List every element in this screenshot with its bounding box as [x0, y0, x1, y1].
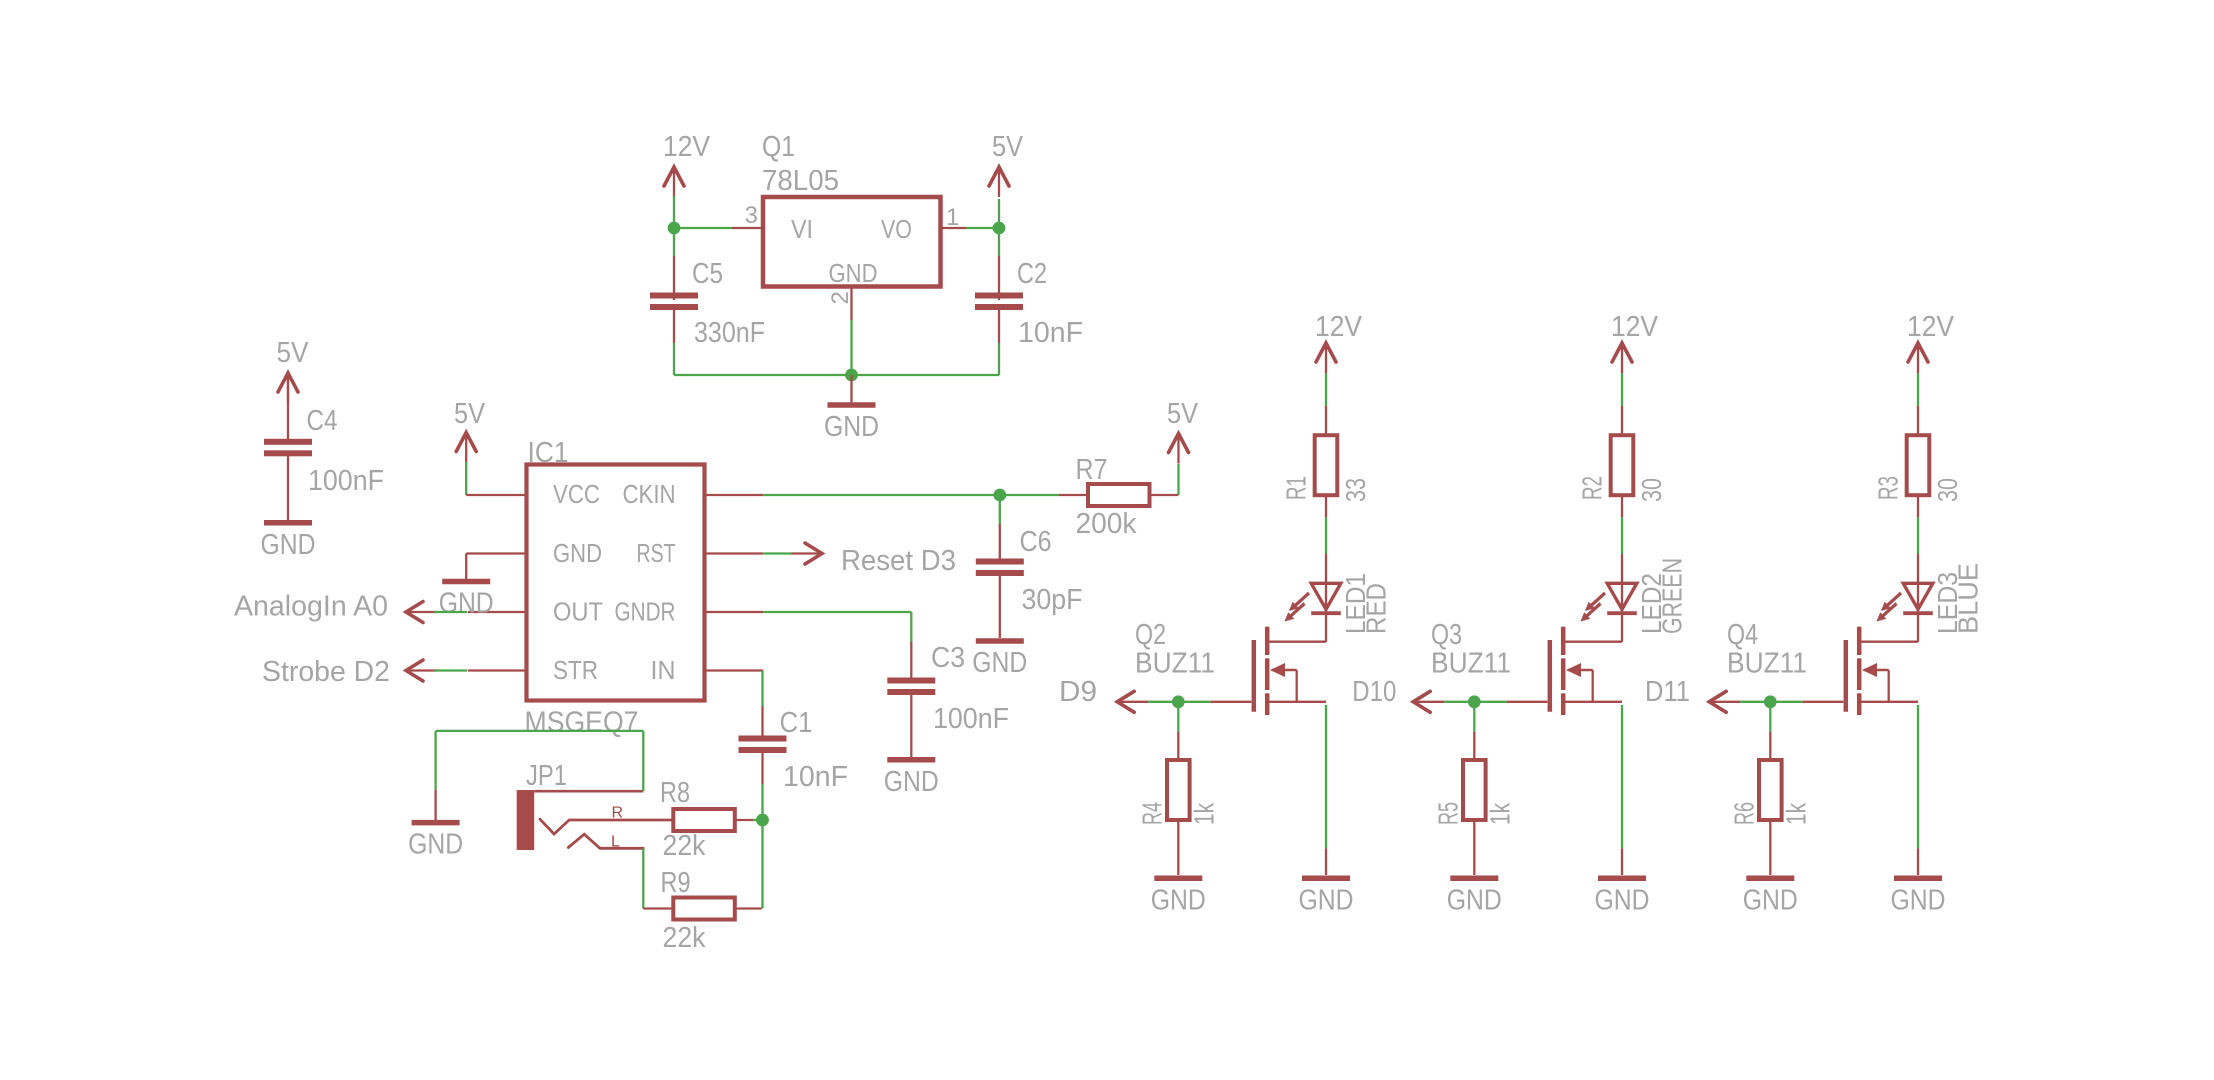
svg-text:2: 2 — [827, 291, 854, 304]
svg-text:JP1: JP1 — [526, 760, 567, 792]
audio jack JP1 — [517, 760, 674, 851]
transistor Q3 BUZ11 — [1431, 619, 1622, 715]
svg-text:OUT: OUT — [553, 597, 603, 627]
svg-text:GND: GND — [261, 529, 316, 561]
svg-text:1k: 1k — [1780, 802, 1811, 825]
ground symbol Q2 source GND — [1299, 878, 1354, 916]
svg-text:R3: R3 — [1873, 476, 1904, 500]
wire C2 to ground rail — [852, 343, 1000, 375]
port D10 — [1352, 676, 1444, 712]
svg-text:Reset D3: Reset D3 — [841, 545, 956, 577]
svg-text:C2: C2 — [1017, 258, 1047, 290]
junction gate node Q2 — [1172, 695, 1185, 708]
svg-text:BUZ11: BUZ11 — [1431, 648, 1511, 680]
wire Q1 GND pin to ground rail — [850, 320, 852, 375]
svg-text:BUZ11: BUZ11 — [1135, 648, 1215, 680]
ground symbol R4 GND — [1151, 878, 1206, 916]
svg-text:R4: R4 — [1137, 802, 1168, 825]
svg-text:R2: R2 — [1577, 476, 1608, 500]
svg-text:C5: C5 — [692, 258, 723, 290]
svg-text:200k: 200k — [1076, 508, 1137, 540]
svg-text:30pF: 30pF — [1022, 584, 1083, 616]
svg-text:10nF: 10nF — [1018, 317, 1083, 349]
svg-text:GND: GND — [1151, 884, 1206, 916]
svg-text:R: R — [612, 805, 624, 822]
svg-text:5V: 5V — [992, 131, 1024, 163]
junction CKIN/R7/C6 node — [993, 489, 1006, 502]
svg-text:RED: RED — [1360, 583, 1391, 634]
resistor R1 33 — [1281, 406, 1371, 517]
svg-text:30: 30 — [1932, 478, 1963, 502]
ground symbol C4 GND — [261, 523, 316, 561]
wire GNDR to C3 — [763, 612, 911, 642]
svg-text:12V: 12V — [1315, 311, 1363, 343]
svg-text:30: 30 — [1636, 478, 1667, 502]
wire R2 to LED2 — [1621, 517, 1623, 554]
svg-text:MSGEQ7: MSGEQ7 — [525, 707, 639, 739]
wire jack sleeve to GND loop — [436, 731, 644, 791]
wire 12V to R2 — [1621, 373, 1623, 406]
wire RST pin to D3 port — [763, 552, 792, 554]
ground symbol Q3 source GND — [1595, 878, 1650, 916]
wire Q1 pin 1 to 5V junction — [966, 227, 999, 229]
svg-text:GND: GND — [1447, 884, 1502, 916]
svg-text:GND: GND — [1299, 884, 1354, 916]
svg-text:GND: GND — [408, 829, 463, 861]
resistor R4 1k — [1137, 760, 1220, 875]
LED LED1 RED — [1285, 554, 1392, 642]
resistor R2 30 — [1577, 406, 1667, 517]
wire junction down to R4 — [1177, 702, 1179, 760]
wire junction down to R5 — [1473, 702, 1475, 760]
wire R7 to 5V arrow — [1177, 464, 1179, 495]
svg-text:R8: R8 — [660, 777, 690, 809]
resistor R8 22k — [660, 777, 753, 862]
capacitor C5 330nF — [650, 256, 765, 349]
capacitor C3 100nF — [887, 642, 1009, 757]
capacitor C2 10nF — [975, 256, 1083, 349]
svg-text:22k: 22k — [663, 922, 706, 954]
resistor R6 1k — [1729, 760, 1812, 875]
supply 5V (IC1 VCC) — [454, 398, 486, 463]
wire node down to C6 — [999, 495, 1001, 524]
svg-text:GND: GND — [884, 766, 939, 798]
svg-text:GND: GND — [439, 588, 494, 620]
svg-text:1k: 1k — [1484, 802, 1515, 825]
wire Q2 source to GND — [1325, 705, 1327, 875]
svg-text:GND: GND — [1595, 884, 1650, 916]
wire 5V arrow to VCC corner — [465, 462, 467, 495]
junction ground rail node — [845, 369, 858, 382]
supply 12V (stage Q3) — [1611, 311, 1659, 373]
svg-text:33: 33 — [1340, 478, 1371, 502]
svg-text:GND: GND — [553, 538, 602, 568]
svg-text:Q2: Q2 — [1135, 619, 1166, 651]
IC IC1 MSGEQ7 — [466, 437, 763, 739]
svg-text:R6: R6 — [1729, 802, 1760, 825]
wire R8 to junction — [753, 819, 763, 821]
svg-text:D10: D10 — [1352, 676, 1396, 708]
port D11 — [1645, 676, 1740, 712]
wire junction down to R9 — [761, 820, 763, 909]
wire R1 to LED1 — [1325, 517, 1327, 554]
svg-text:10nF: 10nF — [783, 761, 848, 793]
svg-text:GND: GND — [824, 411, 879, 443]
wire CKIN to node — [763, 494, 1000, 496]
wire C1 down to R8 junction — [761, 784, 763, 820]
svg-text:BLUE: BLUE — [1952, 563, 1983, 634]
svg-text:GND: GND — [972, 647, 1027, 679]
svg-text:VI: VI — [791, 214, 813, 244]
svg-text:5V: 5V — [1167, 398, 1199, 430]
wire D11 port to gate junction — [1740, 701, 1770, 703]
LED LED2 GREEN — [1581, 554, 1688, 642]
svg-text:78L05: 78L05 — [762, 165, 839, 197]
junction R8/R9/C1 node — [756, 814, 769, 827]
ground symbol IC1 GND pin — [439, 554, 494, 620]
svg-text:R7: R7 — [1076, 454, 1108, 486]
svg-text:C1: C1 — [780, 707, 813, 739]
supply 12V (stage Q2) — [1315, 311, 1363, 373]
svg-text:100nF: 100nF — [933, 703, 1009, 735]
svg-text:VO: VO — [881, 214, 912, 244]
transistor Q2 BUZ11 — [1135, 619, 1326, 715]
svg-text:12V: 12V — [1611, 311, 1659, 343]
wire junction down to R6 — [1769, 702, 1771, 760]
capacitor C6 30pF — [976, 524, 1083, 638]
wire D2 port to STR pin — [434, 669, 467, 671]
ground symbol C6 GND — [972, 641, 1027, 679]
svg-text:12V: 12V — [1907, 311, 1955, 343]
svg-text:1: 1 — [946, 204, 959, 231]
svg-text:D9: D9 — [1059, 676, 1097, 708]
transistor Q4 BUZ11 — [1727, 619, 1918, 715]
ground symbol JP1 GND — [408, 789, 463, 860]
svg-text:AnalogIn A0: AnalogIn A0 — [234, 591, 388, 623]
ground symbol R5 GND — [1447, 878, 1502, 916]
wire junction to Q3 gate — [1474, 701, 1547, 703]
svg-text:330nF: 330nF — [694, 317, 765, 349]
wire 12V to R3 — [1917, 373, 1919, 406]
wire IN pin down to C1 — [761, 671, 763, 707]
resistor R3 30 — [1873, 406, 1963, 517]
supply 5V (C4 branch) — [277, 337, 310, 403]
svg-text:100nF: 100nF — [308, 465, 384, 497]
svg-text:L: L — [611, 834, 620, 851]
svg-text:5V: 5V — [277, 337, 310, 369]
voltage regulator Q1 78L05 — [732, 131, 966, 320]
svg-text:IC1: IC1 — [528, 437, 569, 469]
svg-text:R9: R9 — [661, 867, 691, 899]
svg-text:C3: C3 — [931, 642, 965, 674]
wire 5V junction down to C2 — [998, 228, 1000, 256]
port D9 — [1059, 676, 1148, 712]
wire R3 to LED3 — [1917, 517, 1919, 554]
wire 12V arrow to junction — [673, 196, 675, 228]
junction gate node Q3 — [1468, 695, 1481, 708]
svg-text:3: 3 — [745, 202, 758, 229]
wire Q3 source to GND — [1621, 705, 1623, 875]
junction 12V/C5/VI node — [668, 222, 681, 235]
svg-text:BUZ11: BUZ11 — [1727, 648, 1807, 680]
svg-text:RST: RST — [637, 538, 676, 568]
wire node to R7 — [1000, 494, 1059, 496]
supply 12V (regulator input) — [663, 131, 711, 197]
wire junction to Q1 pin 3 — [674, 227, 732, 229]
svg-text:GND: GND — [829, 258, 878, 288]
wire Q4 source to GND — [1917, 705, 1919, 875]
junction 5V/C2/VO node — [993, 222, 1006, 235]
svg-text:Strobe D2: Strobe D2 — [262, 656, 390, 688]
LED LED3 BLUE — [1877, 554, 1984, 642]
wire junction to Q4 gate — [1770, 701, 1843, 703]
supply 12V (stage Q4) — [1907, 311, 1955, 373]
resistor R9 22k — [643, 867, 761, 954]
svg-text:GNDR: GNDR — [615, 597, 676, 627]
wire jack L contact down to R9 — [642, 848, 644, 908]
svg-text:VCC: VCC — [553, 479, 600, 509]
svg-text:5V: 5V — [454, 398, 486, 430]
ground symbol C3 GND — [884, 760, 939, 798]
wire junction to 5V arrow — [998, 199, 1000, 228]
svg-text:Q3: Q3 — [1431, 619, 1462, 651]
ground symbol Q4 source GND — [1891, 878, 1946, 916]
svg-text:C4: C4 — [307, 405, 338, 437]
svg-text:R1: R1 — [1281, 476, 1312, 500]
capacitor C1 10nF — [739, 706, 849, 793]
svg-text:IN: IN — [651, 655, 676, 685]
resistor R7 200k — [1059, 454, 1179, 540]
capacitor C4 100nF — [264, 373, 384, 520]
junction gate node Q4 — [1764, 695, 1777, 708]
wire 12V junction down to C5 — [673, 228, 675, 256]
svg-text:C6: C6 — [1020, 526, 1052, 558]
svg-text:GREEN: GREEN — [1656, 558, 1687, 634]
ground symbol R6 GND — [1743, 878, 1798, 916]
wire 12V to R1 — [1325, 373, 1327, 406]
ground symbol regulator GND — [824, 375, 879, 443]
svg-text:Q1: Q1 — [762, 131, 795, 163]
wire D10 port to gate junction — [1444, 701, 1474, 703]
svg-text:22k: 22k — [663, 830, 706, 862]
svg-text:STR: STR — [553, 655, 598, 685]
svg-text:1k: 1k — [1188, 802, 1219, 825]
port AnalogIn A0 — [234, 591, 437, 623]
resistor R5 1k — [1433, 760, 1516, 875]
svg-text:R5: R5 — [1433, 802, 1464, 825]
wire C5 to ground rail — [674, 343, 852, 375]
wire D9 port to gate junction — [1148, 701, 1178, 703]
supply 5V (after R7) — [1167, 398, 1199, 464]
svg-text:GND: GND — [1743, 884, 1798, 916]
svg-text:D11: D11 — [1645, 676, 1690, 708]
wire junction to Q2 gate — [1178, 701, 1251, 703]
supply 5V (regulator output) — [989, 131, 1024, 197]
svg-text:CKIN: CKIN — [623, 479, 676, 509]
svg-text:12V: 12V — [663, 131, 711, 163]
svg-text:GND: GND — [1891, 884, 1946, 916]
wire A0 port to OUT pin — [434, 611, 467, 613]
port Reset D3 — [791, 543, 956, 577]
svg-text:Q4: Q4 — [1727, 619, 1758, 651]
port Strobe D2 — [262, 656, 437, 688]
